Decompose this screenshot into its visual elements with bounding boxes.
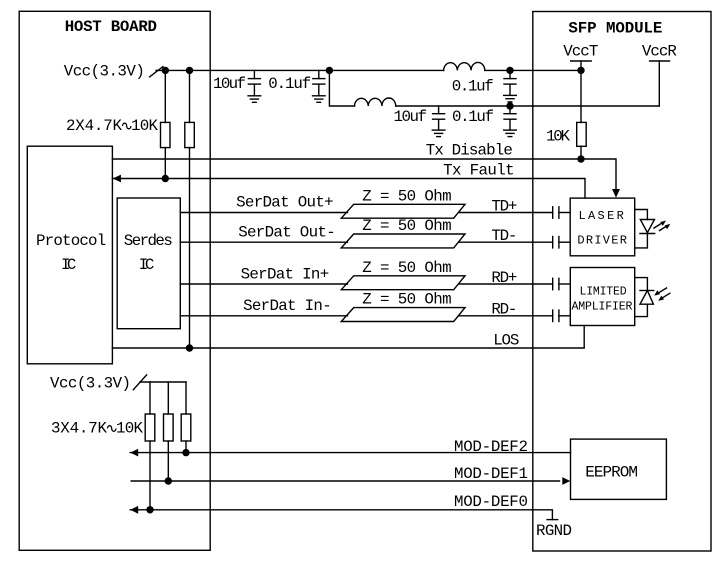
node junction dot row1/row2 branch bbox=[326, 67, 333, 74]
wire SerDat Out- / TD- bbox=[180, 241, 347, 243]
resistor R4 riser/body bbox=[149, 382, 151, 414]
svg-text:Tx Disable: Tx Disable bbox=[426, 142, 513, 160]
svg-text:0.1uf: 0.1uf bbox=[452, 78, 494, 96]
svg-text:Vcc(3.3V): Vcc(3.3V) bbox=[64, 63, 145, 81]
LED D1 leads bbox=[635, 210, 648, 220]
capacitor C2 0.1uf bbox=[318, 70, 320, 78]
transmission line Z4 bbox=[341, 308, 465, 322]
ground for C4 bbox=[432, 129, 445, 131]
transmission line Z1 bbox=[341, 204, 465, 218]
svg-text:Vcc(3.3V): Vcc(3.3V) bbox=[50, 375, 131, 393]
serdes IC U2 box bbox=[117, 198, 180, 329]
resistor R1 pullup bbox=[164, 70, 166, 122]
node junction dot VccT bbox=[577, 67, 584, 74]
LED D1 light arrow 1 bbox=[654, 223, 662, 228]
transmission line Z2 bbox=[341, 234, 465, 248]
arrow MOD-DEF2 left bbox=[130, 449, 138, 457]
wire MOD-DEF1 bbox=[131, 480, 559, 482]
inductor L1 bbox=[444, 62, 485, 70]
node junction dot C5 row2 bbox=[506, 102, 513, 109]
photodiode D2 cathode bar bbox=[640, 290, 654, 292]
wire SerDat In- / RD- bbox=[180, 315, 347, 317]
photodiode D2 top lead bbox=[635, 278, 648, 291]
svg-text:Protocol: Protocol bbox=[36, 232, 106, 250]
wire SerDat In+ / RD+ bbox=[180, 283, 347, 285]
capacitor C8 RD+ bbox=[552, 278, 554, 289]
svg-text:AMPLIFIER: AMPLIFIER bbox=[572, 300, 633, 313]
node junction dot C3 row1 bbox=[506, 67, 513, 74]
svg-text:RGND: RGND bbox=[536, 522, 572, 540]
svg-text:Z = 50 Ohm: Z = 50 Ohm bbox=[362, 259, 451, 277]
wire Tx Disable bbox=[112, 159, 616, 191]
svg-text:Z = 50 Ohm: Z = 50 Ohm bbox=[362, 291, 451, 309]
wire MOD-DEF0 bbox=[130, 510, 552, 520]
svg-text:Z = 50 Ohm: Z = 50 Ohm bbox=[362, 187, 451, 205]
wire Tx Fault bbox=[112, 179, 585, 199]
resistor R2 pullup bbox=[189, 70, 191, 122]
laser driver U3 box bbox=[570, 198, 635, 256]
svg-text:SFP MODULE: SFP MODULE bbox=[568, 20, 662, 38]
LED D1 light arrow 2 bbox=[660, 226, 668, 231]
svg-text:10uf: 10uf bbox=[394, 108, 428, 126]
EEPROM U5 box bbox=[571, 439, 667, 499]
svg-text:TD+: TD+ bbox=[491, 197, 517, 215]
node junction dot MOD-DEF2 / R6 bbox=[182, 449, 189, 456]
svg-text:EEPROM: EEPROM bbox=[585, 463, 638, 481]
arrow LED light 1 head bbox=[660, 221, 666, 226]
ground for C2 bbox=[313, 95, 326, 97]
arrow photodiode light 1 head bbox=[654, 290, 660, 295]
sine tilde in 3X4.7K~10K bbox=[108, 426, 116, 432]
svg-text:SerDat Out+: SerDat Out+ bbox=[236, 194, 334, 212]
wire SerDat Out+ / TD+ bbox=[180, 212, 347, 214]
arrow MOD-DEF0 left bbox=[130, 506, 138, 514]
svg-text:LIMITED: LIMITED bbox=[580, 286, 627, 299]
resistor R6 riser/body bbox=[185, 382, 187, 414]
svg-text:RD-: RD- bbox=[491, 301, 517, 319]
node junction dot Tx Fault / R1 bbox=[162, 175, 169, 182]
node junction dot R1 top bbox=[162, 67, 169, 74]
LED D1 bottom lead bbox=[635, 234, 648, 248]
wire row1 after L1 bbox=[485, 69, 581, 71]
arrow photodiode light 2 head bbox=[658, 296, 664, 301]
svg-text:VccR: VccR bbox=[642, 43, 678, 61]
inductor L2 bbox=[355, 98, 396, 106]
svg-text:IC: IC bbox=[139, 256, 155, 274]
capacitor C5 0.1uf row2 bbox=[509, 106, 511, 114]
node junction dot MOD-DEF1 / R5 bbox=[165, 477, 172, 484]
svg-text:MOD-DEF1: MOD-DEF1 bbox=[454, 465, 528, 483]
transmission line Z3 bbox=[341, 276, 465, 290]
power symbol VccR bbox=[650, 60, 670, 62]
svg-text:TD-: TD- bbox=[491, 227, 517, 245]
arrow Tx Disable down bbox=[612, 189, 620, 198]
svg-text:Tx Fault: Tx Fault bbox=[443, 162, 514, 180]
capacitor C7 TD- bbox=[552, 237, 554, 248]
svg-text:RD+: RD+ bbox=[491, 269, 517, 287]
svg-text:10K: 10K bbox=[546, 128, 571, 146]
svg-text:SerDat In-: SerDat In- bbox=[243, 297, 332, 315]
resistor R3 10K in SFP bbox=[577, 122, 587, 146]
power symbol VccT bbox=[571, 60, 592, 62]
wire Vcc rail lower bbox=[140, 381, 186, 383]
wire row2 to VccR bbox=[396, 105, 660, 107]
svg-text:Serdes: Serdes bbox=[124, 232, 173, 250]
wire drop to row2 bbox=[329, 70, 354, 106]
power symbol Vcc(3.3V) host slash bbox=[150, 67, 163, 77]
svg-text:10K: 10K bbox=[116, 420, 144, 438]
node junction dot R2 top bbox=[186, 67, 193, 74]
wire LOS bbox=[112, 326, 584, 349]
wire MOD-DEF2 bbox=[130, 452, 570, 454]
svg-text:SerDat In+: SerDat In+ bbox=[241, 266, 330, 284]
photodiode D2 light arrow 2 bbox=[662, 293, 670, 298]
photodiode D2 light arrow 1 bbox=[658, 288, 667, 293]
svg-text:LASER: LASER bbox=[579, 209, 624, 223]
ground for C3 bbox=[504, 94, 517, 96]
LED D1 triangle bbox=[640, 220, 654, 233]
svg-text:MOD-DEF0: MOD-DEF0 bbox=[454, 493, 528, 511]
svg-text:0.1uf: 0.1uf bbox=[268, 75, 311, 93]
svg-text:Z = 50 Ohm: Z = 50 Ohm bbox=[362, 217, 451, 235]
wire Vcc rail row1 bbox=[156, 69, 444, 71]
svg-text:MOD-DEF2: MOD-DEF2 bbox=[454, 438, 528, 456]
svg-text:HOST BOARD: HOST BOARD bbox=[65, 18, 157, 36]
capacitor C1 10uf bbox=[253, 70, 255, 78]
svg-text:VccT: VccT bbox=[563, 43, 598, 61]
ground for C1 bbox=[248, 95, 261, 97]
node junction dot LOS / R2 bbox=[186, 344, 193, 351]
power symbol Vcc(3.3V) lower slash bbox=[133, 375, 146, 390]
arrow LED light 2 head bbox=[665, 224, 671, 229]
LED D1 cathode bar bbox=[640, 233, 655, 235]
photodiode D2 triangle bbox=[640, 291, 653, 305]
arrow Tx Fault left bbox=[113, 175, 121, 183]
resistor R5 riser/body bbox=[167, 382, 169, 414]
capacitor C3 0.1uf row1 right bbox=[509, 70, 511, 78]
svg-text:SerDat Out-: SerDat Out- bbox=[238, 224, 336, 242]
ground for C5 bbox=[504, 129, 517, 131]
protocol IC U1 box bbox=[27, 146, 112, 364]
sine tilde in 2X4.7K~10K bbox=[123, 123, 131, 129]
svg-text:LOS: LOS bbox=[493, 332, 519, 350]
svg-text:10uf: 10uf bbox=[213, 75, 246, 93]
ground RGND bar bbox=[547, 519, 558, 521]
node junction dot Tx Disable / 10K bbox=[577, 155, 584, 162]
SFP module box bbox=[533, 12, 711, 552]
capacitor C4 10uf row2 bbox=[438, 106, 440, 114]
capacitor C9 RD- bbox=[552, 310, 554, 321]
svg-text:3X4.7K: 3X4.7K bbox=[51, 420, 108, 438]
limited amplifier U4 box bbox=[570, 268, 634, 326]
photodiode D2 bottom lead bbox=[635, 304, 648, 316]
svg-text:2X4.7K: 2X4.7K bbox=[66, 117, 123, 135]
arrow MOD-DEF1 right into EEPROM bbox=[562, 477, 570, 485]
node junction dot MOD-DEF0 / R4 bbox=[146, 506, 153, 513]
host board box bbox=[19, 11, 210, 550]
svg-text:0.1uf: 0.1uf bbox=[452, 108, 494, 126]
svg-text:IC: IC bbox=[61, 256, 76, 274]
capacitor C6 TD+ bbox=[552, 207, 554, 218]
svg-text:10K: 10K bbox=[131, 117, 159, 135]
